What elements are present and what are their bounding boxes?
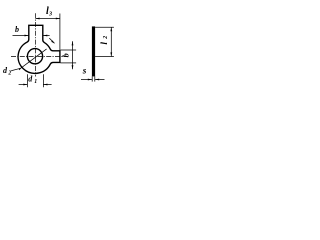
svg-text:1: 1: [34, 79, 37, 85]
svg-text:s: s: [82, 65, 87, 75]
svg-text:3: 3: [48, 11, 52, 17]
d2 diagonal dimension line: [11, 49, 46, 71]
washer outline plan view: [18, 25, 60, 73]
svg-text:b: b: [15, 25, 19, 34]
right tab b dimension: [61, 49, 77, 51]
d2 arrow lower-left: [19, 67, 22, 70]
d2 arrow upper-right stub: [49, 38, 54, 43]
horizontal centerline: [11, 56, 67, 58]
background: [0, 0, 120, 93]
vertical centerline: [35, 13, 37, 76]
l2 extension lines: [95, 26, 114, 28]
l3 dimension (top): [59, 14, 61, 51]
inner circle (hole d1): [27, 49, 42, 64]
dimension b (top tab width): [13, 35, 29, 37]
svg-text:l: l: [100, 42, 110, 45]
s dimension: [81, 79, 92, 81]
svg-text:2: 2: [7, 70, 11, 76]
side view bar (thickness s): [92, 26, 95, 76]
l2 dimension line: [110, 27, 112, 56]
d1 dimension (bottom): [26, 74, 28, 87]
svg-text:2: 2: [103, 36, 109, 40]
s extension lines below bar: [91, 76, 93, 81]
svg-text:b: b: [61, 53, 70, 57]
